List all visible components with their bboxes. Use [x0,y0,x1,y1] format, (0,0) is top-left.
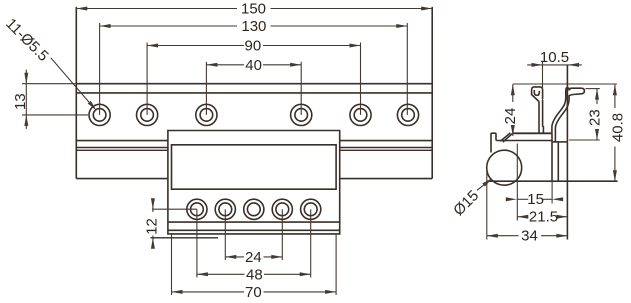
section clamp tab [491,133,496,152]
dim 130 ext right [406,23,408,115]
rail right edge [431,7,433,179]
svg-text:23: 23 [587,109,604,126]
rail mid line right [340,140,433,142]
dim 48 ext left [196,209,198,277]
dim 40 ext left [205,62,207,115]
dim 70 arrows [172,290,183,294]
section right wall [566,65,568,240]
dim 48 ext right [310,209,312,277]
dim 70 ext left [171,234,173,295]
svg-text:15: 15 [527,191,544,208]
rail hole 3 outer [196,104,217,125]
svg-text:40.8: 40.8 [610,113,627,142]
dim 24 arrows [225,255,236,259]
label dia15 leader [477,179,492,191]
svg-text:21.5: 21.5 [529,208,558,225]
dim 150 arrows [76,7,87,11]
left prong hook inner curl [534,90,539,95]
dim 130 ext left [99,23,101,115]
rail hole 4 inner [295,109,308,122]
dim 12 arrows [151,198,155,209]
svg-text:130: 130 [241,18,266,35]
section bottom line [487,180,618,182]
dim 90 arrows [147,44,158,48]
dim 70 ext right [335,234,337,295]
rail bottom edge left [76,178,168,180]
dim 24 ext left [224,209,226,260]
dim 130 arrows [100,24,111,28]
svg-text:24: 24 [245,249,262,266]
dim 12 ext bottom [151,237,172,239]
left prong stem foot step [542,127,545,134]
right prong hook [569,88,584,95]
rail hole 2 outer [137,104,158,125]
section slot diagonal A [500,133,510,141]
dim 90 ext right [360,43,362,115]
rail hole 3 inner [200,109,213,122]
block hole 2 outer [215,199,235,219]
dim 13 ext bottom [22,114,88,116]
svg-text:70: 70 [245,284,262,301]
dim 48 arrows [197,272,208,276]
dim 70 line [172,291,245,293]
dim 48 line [197,273,245,275]
section interior line [516,144,518,221]
right prong right face [555,95,569,142]
dim 13 arrows [24,73,28,84]
svg-text:90: 90 [245,38,262,55]
dim 40 arrows [206,63,217,67]
block hole 2 inner [219,203,232,216]
dim 15 line [517,198,529,200]
dim 15 arrows [506,197,517,201]
block lower line [168,229,340,231]
label 11-dia5.5 arrow [88,101,97,111]
block hole 1 inner [191,203,204,216]
rail lower groove line 2 left [76,149,168,151]
left prong stem left face [538,102,540,134]
block partial bottom line [151,237,219,239]
dim 90 line [147,45,244,47]
dim 24s line [512,84,514,102]
rail hole 1 outer [89,104,110,125]
block hole 1 outer [187,199,207,219]
block hole 3 inner [247,203,260,216]
dim 40.8 line [614,84,616,108]
rail hole 4 outer [291,104,312,125]
section body surface left [496,140,552,142]
rail upper groove line [76,92,432,94]
rail lower groove line 2 right [340,149,433,151]
dim 150 line [76,8,237,10]
dim 12 ext top [152,208,197,210]
section slot diagonal B [503,134,512,143]
left prong hook outer [532,87,543,102]
left prong stem right face [542,100,544,127]
dim 24s arrows [511,84,515,95]
dim 21.5 line [517,216,527,218]
dim 23 line [596,89,598,104]
dim 13 line [25,70,27,129]
dim 10.5 arrows [532,63,543,67]
dim 24 ext right [281,209,283,260]
label 11-dia5.5 leader [51,58,95,109]
section body surface right [552,141,567,143]
svg-text:24: 24 [502,108,519,125]
rail lower groove line 1 right [340,147,433,149]
dim 40 ext right [300,62,302,115]
block hole 4 outer [272,199,292,219]
block line under holes [168,221,340,223]
dim 23 ext top [586,88,600,90]
dim 34 arrows [487,234,498,238]
svg-text:150: 150 [241,1,266,18]
dim 34 line [487,235,519,237]
svg-text:13: 13 [12,93,29,110]
block hole 5 inner [304,203,317,216]
rail hole 2 inner [141,109,154,122]
block inner rect [172,145,337,189]
section circle boss [487,150,522,185]
block outer rect [168,131,340,234]
dim 10.5 line [527,64,582,66]
svg-text:40: 40 [245,57,262,74]
svg-text:12: 12 [144,218,161,235]
dim 23 arrows [595,89,599,100]
dim 15 ext right [551,181,553,203]
rail lower groove line 1 left [76,147,168,149]
right prong finger top [566,88,569,91]
dim 130 line [100,25,237,27]
rail hole 5 inner [354,109,367,122]
section ledge [513,132,552,134]
right prong left face [552,91,566,134]
label dia15 arrow [482,178,492,186]
dim 24 line [225,256,244,258]
section channel wall right [557,142,559,181]
block hole 3 outer [244,199,264,219]
section top ext line [513,83,617,85]
dim 21.5 arrows [517,215,528,219]
svg-text:48: 48 [246,266,263,283]
dim 40 line [206,64,244,66]
rail top edge [76,83,432,85]
rail hole 1 inner [93,109,106,122]
block hole 4 inner [276,203,289,216]
dim 23 ext bottom [569,139,600,141]
dim 10.5 ext left [542,62,544,100]
rail bottom edge right [340,178,433,180]
rail mid line left [76,140,168,142]
rail left edge [75,7,77,179]
rail hole 5 outer [350,104,371,125]
svg-text:34: 34 [521,227,538,244]
dim 13 ext top [22,83,76,85]
dim 12 line [152,199,154,212]
dim 34 ext left [486,168,488,240]
svg-text:10.5: 10.5 [540,49,569,66]
dim 40.8 arrows [613,84,617,95]
block hole 5 outer [301,199,321,219]
dim 90 ext left [146,43,148,115]
rail hole 6 inner [402,109,415,122]
rail hole 6 outer [397,104,418,125]
section channel wall left [551,133,553,181]
